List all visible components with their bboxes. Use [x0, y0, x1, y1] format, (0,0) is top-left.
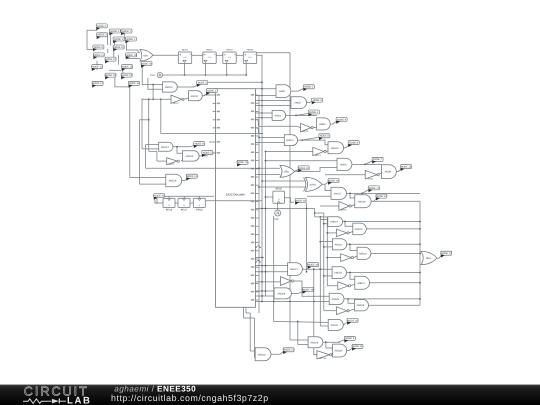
svg-text:REG1: REG1 — [182, 49, 189, 52]
svg-text:NOT10: NOT10 — [319, 357, 327, 360]
svg-text:NODE 3: NODE 3 — [98, 34, 108, 37]
svg-text:AND21: AND21 — [290, 268, 298, 271]
svg-text:AND19: AND19 — [330, 221, 338, 224]
svg-text:REG3: REG3 — [227, 49, 234, 52]
svg-text:AND8: AND8 — [385, 171, 392, 174]
svg-text:NODE 11: NODE 11 — [105, 58, 116, 61]
svg-text:AND17: AND17 — [334, 192, 342, 195]
svg-text:NODE 6: NODE 6 — [320, 135, 330, 138]
svg-text:NODE 12: NODE 12 — [94, 54, 105, 57]
svg-text:NODE 21: NODE 21 — [283, 349, 294, 352]
svg-text:NOT2: NOT2 — [368, 177, 374, 180]
svg-text:AND25: AND25 — [332, 298, 340, 301]
svg-text:AND1: AND1 — [279, 90, 286, 93]
svg-text:AND27: AND27 — [331, 324, 339, 327]
svg-text:REG5: REG5 — [276, 188, 283, 191]
svg-text:AND30: AND30 — [335, 350, 343, 353]
svg-text:NODE 2: NODE 2 — [126, 38, 136, 41]
svg-text:NODE 4: NODE 4 — [110, 30, 120, 33]
svg-text:NODE 3: NODE 3 — [345, 337, 355, 340]
svg-text:NODE 1: NODE 1 — [114, 38, 124, 41]
svg-text:AND28: AND28 — [278, 292, 286, 295]
svg-text:NODE 7: NODE 7 — [373, 158, 383, 161]
svg-text:AND4: AND4 — [275, 114, 282, 117]
svg-text:NODE 14: NODE 14 — [187, 175, 198, 178]
svg-text:AND22: AND22 — [359, 252, 367, 255]
svg-text:CLK: CLK — [274, 218, 279, 221]
svg-text:NODE 6: NODE 6 — [94, 46, 104, 49]
svg-text:NODE 11: NODE 11 — [369, 187, 380, 190]
svg-text:NODE 15: NODE 15 — [129, 82, 140, 85]
svg-text:NODE 3: NODE 3 — [313, 99, 323, 102]
svg-text:NODE 17: NODE 17 — [92, 82, 103, 85]
svg-text:AND13: AND13 — [331, 147, 339, 150]
svg-text:NODE 32: NODE 32 — [347, 319, 358, 322]
svg-text:NODE 1: NODE 1 — [122, 30, 132, 33]
svg-text:REG8: REG8 — [196, 209, 203, 212]
svg-text:NODE 20: NODE 20 — [295, 199, 306, 202]
svg-text:NODE 17: NODE 17 — [441, 252, 452, 255]
svg-text:OR2: OR2 — [284, 170, 290, 173]
svg-text:AND3: AND3 — [294, 102, 301, 105]
svg-text:AND9: AND9 — [340, 163, 347, 166]
svg-text:NODE 2: NODE 2 — [207, 90, 217, 93]
svg-text:AND18: AND18 — [358, 200, 366, 203]
svg-text:AND12: AND12 — [286, 139, 294, 142]
svg-text:NODE 13: NODE 13 — [401, 166, 412, 169]
svg-text:NODE 5: NODE 5 — [198, 82, 208, 85]
svg-text:AND23: AND23 — [334, 272, 342, 275]
svg-text:CLK: CLK — [150, 74, 155, 77]
svg-text:AND14: AND14 — [161, 146, 169, 149]
svg-text:NODE 10: NODE 10 — [298, 167, 309, 170]
svg-text:NODE 16: NODE 16 — [141, 62, 152, 65]
svg-text:NODE 25: NODE 25 — [237, 161, 248, 164]
svg-text:AND29: AND29 — [310, 341, 318, 344]
svg-text:OR3: OR3 — [426, 257, 432, 260]
svg-text:AND10: AND10 — [165, 86, 173, 89]
svg-text:AND5: AND5 — [319, 123, 326, 126]
svg-text:NODE 18: NODE 18 — [105, 74, 116, 77]
svg-text:AND11: AND11 — [191, 95, 199, 98]
svg-text:NODE 5: NODE 5 — [203, 152, 213, 155]
svg-text:NODE 24: NODE 24 — [154, 195, 165, 198]
svg-text:AND15: AND15 — [186, 155, 194, 158]
svg-text:NODE 16: NODE 16 — [328, 179, 339, 182]
svg-text:NODE 10: NODE 10 — [126, 54, 137, 57]
svg-text:REG6: REG6 — [166, 209, 173, 212]
svg-text:5x32 Decoder: 5x32 Decoder — [226, 192, 245, 196]
svg-text:NODE 11: NODE 11 — [114, 46, 125, 49]
svg-text:NODE 9: NODE 9 — [337, 118, 347, 121]
svg-text:NODE 4: NODE 4 — [309, 111, 319, 114]
svg-text:AND33: AND33 — [258, 353, 266, 356]
svg-text:OR1: OR1 — [143, 54, 149, 57]
svg-text:NOT4: NOT4 — [315, 154, 321, 157]
svg-text:NODE 26: NODE 26 — [308, 264, 319, 267]
svg-text:NODE 19: NODE 19 — [303, 288, 314, 291]
svg-text:NOT2: NOT2 — [169, 163, 175, 166]
svg-text:NODE 13: NODE 13 — [122, 66, 133, 69]
svg-text:LAB: LAB — [67, 396, 92, 405]
svg-text:NODE 0: NODE 0 — [97, 25, 107, 28]
svg-text:NODE 8: NODE 8 — [349, 142, 359, 145]
svg-text:NOT1: NOT1 — [173, 102, 179, 105]
svg-text:http://circuitlab.com/cngah5f3: http://circuitlab.com/cngah5f3p7z2p — [111, 393, 269, 403]
svg-text:AND21: AND21 — [335, 243, 343, 246]
svg-text:AND20: AND20 — [355, 228, 363, 231]
svg-text:NODE 12: NODE 12 — [376, 195, 387, 198]
svg-text:AND24: AND24 — [357, 282, 365, 285]
svg-text:REG2: REG2 — [207, 49, 214, 52]
svg-text:NODE 31: NODE 31 — [352, 345, 363, 348]
svg-text:XOR1: XOR1 — [310, 183, 317, 186]
svg-text:AND26: AND26 — [356, 304, 364, 307]
svg-text:REG4: REG4 — [247, 49, 254, 52]
svg-text:NODE 12: NODE 12 — [92, 66, 103, 69]
svg-text:NODE 1: NODE 1 — [304, 86, 314, 89]
svg-text:NODE 13: NODE 13 — [121, 74, 132, 77]
svg-text:AND16: AND16 — [169, 179, 177, 182]
svg-text:NOT3: NOT3 — [303, 130, 309, 133]
svg-text:NOT5: NOT5 — [341, 209, 347, 212]
svg-text:NODE 9: NODE 9 — [195, 143, 205, 146]
svg-text:REG7: REG7 — [181, 209, 188, 212]
